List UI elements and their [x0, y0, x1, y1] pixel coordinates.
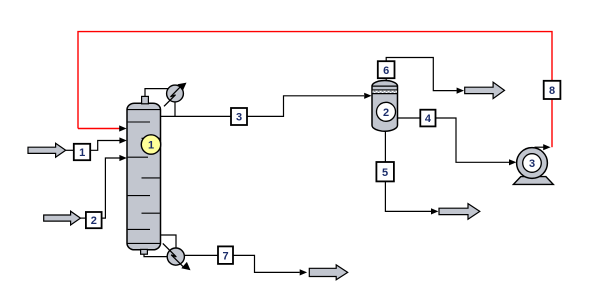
column label circle 1 (yellow)	[141, 135, 160, 154]
wire: box2 to column	[102, 158, 120, 218]
wire: red recycle into column	[78, 128, 120, 130]
separator label circle 2	[377, 102, 396, 121]
svg-text:1: 1	[148, 140, 154, 152]
wire: red recycle line below box 8	[551, 99, 553, 147]
bottom nozzle	[141, 249, 148, 254]
wire: box 5 to liquid product	[385, 182, 431, 212]
svg-text:2: 2	[383, 107, 389, 119]
svg-text:6: 6	[383, 65, 389, 77]
wire: pump outlet to red recycle	[535, 146, 544, 148]
stream box 6	[378, 61, 395, 78]
pump P-100	[513, 148, 553, 185]
svg-text:1: 1	[79, 147, 85, 159]
wire: box 6 to vapour product	[386, 58, 457, 91]
junction arrowhead liquid product	[431, 208, 438, 214]
stream box 1	[74, 144, 90, 160]
wire: separator bottom to box 5	[384, 131, 386, 162]
energy bolt out (up-right)	[164, 87, 181, 107]
svg-text:4: 4	[425, 113, 432, 125]
svg-text:2: 2	[91, 215, 97, 227]
svg-text:3: 3	[529, 158, 535, 170]
junction arrowhead into pump	[509, 159, 516, 165]
separator vessel V-100	[372, 81, 398, 132]
product block arrow (bottoms, stream 7)	[309, 265, 347, 280]
wire: separator side to box 4	[398, 117, 421, 119]
junction arrowhead stream 2 into column	[119, 155, 126, 161]
wire: box 3 to separator	[247, 96, 364, 117]
condenser energy exchanger (circle)	[164, 83, 187, 107]
wire: box1 to column	[90, 141, 119, 151]
product block arrow (stream 5 liquid)	[439, 204, 480, 220]
svg-text:8: 8	[549, 85, 555, 97]
svg-text:7: 7	[222, 250, 228, 262]
feed block arrow (stream 2 feed)	[44, 211, 86, 225]
junction arrowhead vapour product	[457, 88, 464, 94]
product block arrow (vapour, stream 6)	[465, 82, 505, 98]
wire: separator top to box 6	[385, 78, 387, 80]
stream box 8 (on red recycle)	[544, 81, 561, 99]
junction arrowhead into column (red line)	[119, 125, 126, 131]
wire: column side to reboiler top	[161, 235, 177, 248]
feed block arrow (stream 1 feed)	[28, 143, 74, 157]
svg-text:5: 5	[382, 167, 388, 179]
junction arrowhead pump outlet to recycle	[543, 144, 550, 150]
top nozzle	[142, 96, 149, 103]
svg-text:3: 3	[236, 112, 242, 124]
wire: column top to condenser	[145, 89, 169, 97]
stream box 2	[86, 212, 102, 228]
junction arrowhead bottoms product	[300, 269, 307, 275]
stream box 5	[376, 162, 394, 181]
wire: column bottom to reboiler	[144, 254, 167, 256]
stream box 4	[420, 110, 435, 127]
junction arrowhead stream 1 into column	[119, 137, 126, 143]
junction arrowhead into separator	[364, 93, 371, 99]
energy bolt in (down-right)	[163, 243, 184, 267]
wire: box 7 to bottoms product	[233, 255, 300, 272]
dome junction lines	[127, 109, 161, 111]
reboiler energy exchanger (circle)	[163, 243, 191, 270]
demister mesh band	[373, 91, 397, 94]
wire: red recycle line left vertical	[78, 32, 552, 129]
stream box 7	[218, 246, 233, 264]
wire: column side to box 3	[161, 115, 231, 117]
distillation column T-100	[127, 96, 161, 254]
wire: reboiler to box 7	[184, 254, 217, 256]
wire: condenser down to product header	[174, 102, 176, 117]
stream box 3	[231, 108, 247, 125]
trays	[128, 121, 150, 123]
wire: box 4 to pump	[436, 118, 509, 162]
